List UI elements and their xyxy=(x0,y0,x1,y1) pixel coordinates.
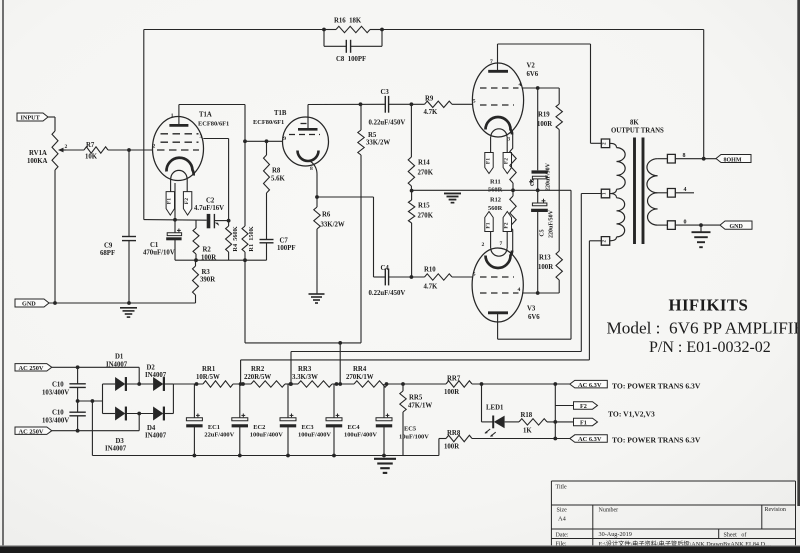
svg-text:F2: F2 xyxy=(184,198,190,204)
svg-text:R16 18K: R16 18K xyxy=(334,18,362,25)
svg-text:4.7uF/16V: 4.7uF/16V xyxy=(194,205,224,212)
svg-text:47K/1W: 47K/1W xyxy=(408,403,432,410)
svg-text:7: 7 xyxy=(500,241,503,247)
svg-text:Size: Size xyxy=(557,508,568,514)
svg-text:100uF/400V: 100uF/400V xyxy=(298,432,331,439)
svg-text:5: 5 xyxy=(473,99,476,105)
svg-text:220R/5W: 220R/5W xyxy=(244,374,271,381)
svg-text:ECF80/6F1: ECF80/6F1 xyxy=(198,121,229,128)
svg-text:0.22uF/450V: 0.22uF/450V xyxy=(369,120,406,127)
svg-text:RR8: RR8 xyxy=(447,430,461,437)
svg-text:EC2: EC2 xyxy=(253,424,265,431)
svg-text:220uF/50V: 220uF/50V xyxy=(549,209,555,238)
svg-text:R12: R12 xyxy=(490,197,501,204)
svg-text:2: 2 xyxy=(482,242,485,248)
svg-text:Number: Number xyxy=(599,508,619,514)
svg-text:5.6K: 5.6K xyxy=(271,176,285,183)
svg-text:C5: C5 xyxy=(540,229,546,236)
svg-text:EC1: EC1 xyxy=(208,424,220,431)
svg-text:100PF: 100PF xyxy=(277,245,296,252)
svg-text:F1: F1 xyxy=(580,420,587,427)
svg-text:F2: F2 xyxy=(580,403,587,410)
svg-text:68PF: 68PF xyxy=(100,250,115,257)
svg-text:100R: 100R xyxy=(444,389,459,396)
svg-text:8: 8 xyxy=(310,166,313,172)
svg-text:F1: F1 xyxy=(485,158,491,164)
svg-text:RR3: RR3 xyxy=(298,366,312,373)
svg-text:470uF/10V: 470uF/10V xyxy=(143,250,175,257)
svg-text:D1: D1 xyxy=(115,354,124,361)
svg-text:270K: 270K xyxy=(418,213,434,220)
svg-text:HIFIKITS: HIFIKITS xyxy=(669,296,749,315)
svg-text:390R: 390R xyxy=(200,277,215,284)
svg-text:3: 3 xyxy=(200,134,203,140)
svg-text:F2: F2 xyxy=(504,222,510,228)
svg-text:C3: C3 xyxy=(381,89,390,96)
svg-text:AC 6.3V: AC 6.3V xyxy=(578,382,602,389)
svg-text:220uF/50V: 220uF/50V xyxy=(546,162,552,191)
svg-text:10K: 10K xyxy=(85,154,98,161)
svg-text:22uF/400V: 22uF/400V xyxy=(204,432,234,439)
svg-text:8OHM: 8OHM xyxy=(724,157,742,163)
svg-text:R13: R13 xyxy=(539,255,551,262)
svg-text:4.7K: 4.7K xyxy=(424,109,438,116)
svg-text:R7: R7 xyxy=(86,142,95,149)
svg-text:Date:: Date: xyxy=(556,532,569,538)
svg-text:F2: F2 xyxy=(504,158,510,164)
svg-text:C2: C2 xyxy=(206,198,215,205)
svg-text:C8 100PF: C8 100PF xyxy=(336,56,366,63)
svg-text:AC 250V: AC 250V xyxy=(19,428,44,435)
svg-text:R9: R9 xyxy=(425,96,434,103)
svg-text:103/400V: 103/400V xyxy=(42,418,69,425)
svg-text:OUTPUT TRANS: OUTPUT TRANS xyxy=(611,128,664,135)
svg-text:100uF/400V: 100uF/400V xyxy=(344,432,377,439)
svg-text:1: 1 xyxy=(171,113,174,119)
svg-text:8K: 8K xyxy=(630,120,639,127)
svg-text:C6: C6 xyxy=(530,179,536,186)
svg-text:TO: V1,V2,V3: TO: V1,V2,V3 xyxy=(608,410,655,419)
svg-text:270K: 270K xyxy=(418,170,434,177)
svg-text:6V6: 6V6 xyxy=(527,71,539,78)
svg-text:TO: POWER TRANS 6.3V: TO: POWER TRANS 6.3V xyxy=(612,436,701,445)
svg-text:LED1: LED1 xyxy=(486,405,504,412)
svg-text:RR2: RR2 xyxy=(251,366,265,373)
svg-text:R10: R10 xyxy=(424,267,436,274)
svg-text:F1: F1 xyxy=(485,222,491,228)
svg-text:Model : 6V6 PP AMPLIFIER: Model : 6V6 PP AMPLIFIER xyxy=(607,318,800,337)
svg-text:C4: C4 xyxy=(381,265,390,272)
svg-text:30-Aug-2019: 30-Aug-2019 xyxy=(599,531,632,538)
svg-text:Revision: Revision xyxy=(765,507,786,513)
svg-text:RR7: RR7 xyxy=(447,376,461,383)
svg-text:R1 150K: R1 150K xyxy=(248,226,255,251)
svg-text:100KA: 100KA xyxy=(27,158,47,165)
svg-text:3.3K/3W: 3.3K/3W xyxy=(292,374,318,381)
svg-text:C1: C1 xyxy=(150,242,159,249)
svg-text:3: 3 xyxy=(508,137,511,143)
svg-text:F1: F1 xyxy=(167,198,173,204)
svg-text:C10: C10 xyxy=(52,410,64,417)
svg-text:7: 7 xyxy=(490,59,493,65)
svg-text:EC3: EC3 xyxy=(302,424,314,431)
svg-text:EC5: EC5 xyxy=(404,426,416,433)
svg-text:2: 2 xyxy=(65,144,68,150)
svg-text:100R: 100R xyxy=(537,121,552,128)
svg-text:5: 5 xyxy=(473,272,476,278)
svg-text:103/400V: 103/400V xyxy=(42,390,69,397)
svg-text:100uF/400V: 100uF/400V xyxy=(250,432,283,439)
svg-text:R19: R19 xyxy=(538,112,550,119)
svg-text:C9: C9 xyxy=(104,243,113,250)
svg-text:RV1A: RV1A xyxy=(29,150,47,157)
svg-text:IN4007: IN4007 xyxy=(145,433,167,440)
svg-text:6V6: 6V6 xyxy=(528,314,540,321)
svg-text:R5: R5 xyxy=(368,132,377,139)
svg-text:R4 560K: R4 560K xyxy=(232,226,239,251)
svg-text:D3: D3 xyxy=(116,438,125,445)
svg-text:V3: V3 xyxy=(527,306,536,313)
svg-text:100R: 100R xyxy=(444,443,459,450)
svg-text:4: 4 xyxy=(518,287,521,293)
svg-text:R8: R8 xyxy=(272,168,281,175)
svg-text:8: 8 xyxy=(683,153,686,159)
svg-text:RR1: RR1 xyxy=(202,366,216,373)
svg-text:10R/5W: 10R/5W xyxy=(196,374,220,381)
svg-text:D4: D4 xyxy=(147,425,156,432)
svg-text:V2: V2 xyxy=(527,63,536,70)
svg-text:GND: GND xyxy=(730,224,744,230)
svg-text:R6: R6 xyxy=(322,212,331,219)
svg-text:T1B: T1B xyxy=(274,110,287,117)
svg-text:R2: R2 xyxy=(203,247,212,254)
svg-text:33K/2W: 33K/2W xyxy=(321,222,345,229)
svg-text:560R: 560R xyxy=(488,205,503,212)
svg-text:AC 6.3V: AC 6.3V xyxy=(578,436,602,443)
svg-text:INPUT: INPUT xyxy=(21,115,41,122)
svg-text:2: 2 xyxy=(153,144,156,150)
svg-text:0.22uF/450V: 0.22uF/450V xyxy=(369,290,406,297)
svg-text:C7: C7 xyxy=(280,238,289,245)
svg-text:100R: 100R xyxy=(538,264,553,271)
svg-text:4.7K: 4.7K xyxy=(424,284,438,291)
svg-text:AC 250V: AC 250V xyxy=(19,365,44,372)
svg-text:ECF80/6F1: ECF80/6F1 xyxy=(253,119,284,126)
svg-text:IN4007: IN4007 xyxy=(105,446,127,453)
svg-text:P/N : E01-0032-02: P/N : E01-0032-02 xyxy=(649,339,771,356)
svg-text:R15: R15 xyxy=(418,203,430,210)
svg-text:4: 4 xyxy=(519,82,522,88)
svg-text:R18: R18 xyxy=(521,412,533,419)
svg-text:270K/1W: 270K/1W xyxy=(346,374,374,381)
svg-text:R14: R14 xyxy=(418,160,430,167)
svg-text:Title: Title xyxy=(556,485,567,491)
svg-text:33K/2W: 33K/2W xyxy=(366,140,390,147)
svg-text:1K: 1K xyxy=(523,428,532,435)
svg-text:A4: A4 xyxy=(558,516,567,523)
svg-text:D2: D2 xyxy=(147,365,156,372)
svg-text:IN4007: IN4007 xyxy=(106,362,128,369)
svg-text:4: 4 xyxy=(684,187,687,193)
svg-text:C10: C10 xyxy=(52,382,64,389)
svg-text:TO: POWER TRANS 6.3V: TO: POWER TRANS 6.3V xyxy=(612,381,701,390)
svg-text:Sheet of: Sheet of xyxy=(724,531,747,538)
svg-text:EC4: EC4 xyxy=(348,424,361,431)
svg-text:GND: GND xyxy=(22,301,36,308)
svg-text:R11: R11 xyxy=(490,179,501,186)
svg-text:T1A: T1A xyxy=(199,112,212,119)
svg-text:RR5: RR5 xyxy=(409,395,423,402)
svg-text:9: 9 xyxy=(283,136,286,142)
svg-text:RR4: RR4 xyxy=(353,366,367,373)
svg-text:IN4007: IN4007 xyxy=(145,372,167,379)
svg-text:R3: R3 xyxy=(202,269,211,276)
